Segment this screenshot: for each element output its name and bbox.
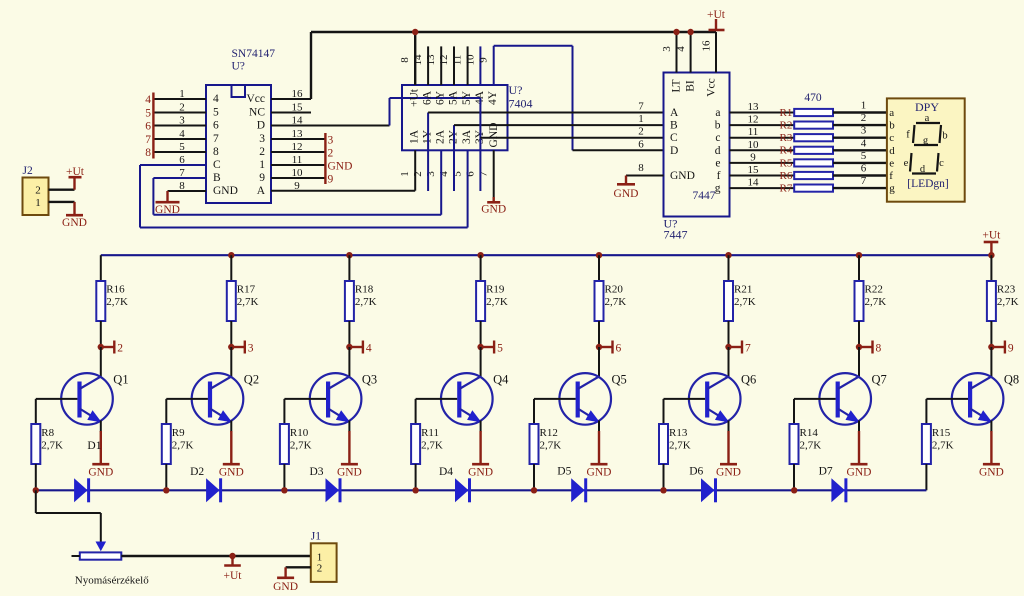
wire potentiometer to J1 pin 1 [121,555,310,557]
svg-text:6: 6 [861,163,867,175]
svg-text:3: 3 [425,171,437,177]
svg-text:2: 2 [412,171,424,177]
node stub 6 [596,344,602,350]
svg-text:7: 7 [145,134,151,146]
svg-text:3: 3 [259,133,265,145]
svg-text:R23: R23 [997,284,1016,296]
resistor R16 2,7K [96,281,105,321]
svg-text:GND: GND [670,170,695,182]
emitter wire to ground Q8 [990,421,992,433]
svg-text:D5: D5 [557,466,571,478]
svg-text:GND: GND [219,467,244,479]
svg-text:3A: 3A [461,129,473,144]
resistor R20 2,7K [595,281,604,321]
stage 1 collector wire [100,255,102,281]
svg-text:3: 3 [861,125,867,137]
stage 5 collector wire [598,255,600,281]
svg-text:a: a [715,107,720,119]
svg-text:g: g [715,183,721,195]
svg-text:+Ut: +Ut [66,166,85,178]
svg-text:6: 6 [145,121,151,133]
svg-text:Q2: Q2 [244,373,259,387]
svg-text:Q8: Q8 [1004,373,1019,387]
svg-text:7: 7 [745,343,751,355]
resistor R9 2,7K [165,399,167,424]
wire 7447 pin to resistor R7 [730,187,795,189]
svg-text:7: 7 [861,175,867,187]
svg-text:R20: R20 [605,284,624,296]
power +Ut above 7447 [715,19,717,30]
svg-text:2,7K: 2,7K [355,296,377,308]
stage 8 collector wire [990,255,992,281]
svg-text:GND: GND [614,188,639,200]
svg-text:GND: GND [979,467,1004,479]
svg-text:8: 8 [876,343,882,355]
power +Ut below wire [229,553,235,559]
diode D6 [701,478,715,502]
wire 7447 pin to resistor R1 [730,112,795,114]
wire R4 to display pin 4 [833,149,887,151]
resistor R17 2,7K [227,281,236,321]
resistor R7 470 [794,185,833,192]
svg-text:5: 5 [497,343,503,355]
red net bus left of SN74147 [152,93,154,159]
svg-text:1: 1 [861,100,867,112]
svg-text:Q7: Q7 [872,373,887,387]
svg-text:2,7K: 2,7K [932,440,954,452]
IC U? 7404 body [402,85,508,150]
svg-text:D: D [257,120,265,132]
transistor Q7 [858,347,860,377]
svg-text:2A: 2A [435,129,447,144]
7447 top pins LT BI Vcc [676,32,678,73]
diode D2 [206,478,220,502]
svg-text:Vcc: Vcc [706,78,718,97]
base wire Q4 [416,398,458,400]
svg-text:R9: R9 [172,427,185,439]
svg-text:7: 7 [638,101,644,113]
svg-text:GND: GND [273,581,298,593]
svg-text:R17: R17 [237,284,256,296]
base wire Q3 [284,398,326,400]
potentiometer Nyomásérzékelő body [80,552,122,559]
svg-text:D: D [670,145,678,157]
ground Q1 [92,463,109,466]
ground SN74147 [156,201,180,204]
diode D3 [326,478,340,502]
resistor R19 2,7K [476,281,485,321]
7404 pin7 GND [493,150,495,197]
svg-text:470: 470 [804,92,822,104]
svg-text:D3: D3 [310,466,324,478]
svg-text:C: C [670,132,678,144]
svg-text:R15: R15 [932,427,951,439]
svg-text:8: 8 [145,147,151,159]
svg-text:GND: GND [488,123,500,148]
transistor Q2 [230,347,232,377]
SN74147 GND pin 8 wire [168,190,207,192]
SN74147 pin 15 NC stub [271,112,311,114]
svg-text:14: 14 [412,54,424,66]
svg-text:11: 11 [748,126,759,138]
resistor R14 2,7K [793,399,795,424]
wire 7447 pin to resistor R4 [730,149,795,151]
red net stub right of SN74147 [324,133,326,184]
svg-text:12: 12 [748,114,759,126]
svg-text:e: e [889,157,894,169]
svg-text:2: 2 [861,112,867,124]
svg-text:7: 7 [213,133,219,145]
svg-text:R8: R8 [41,427,54,439]
svg-text:4: 4 [861,137,867,149]
svg-text:Nyomásérzékelő: Nyomásérzékelő [75,575,149,587]
svg-text:GND: GND [587,467,612,479]
svg-text:2,7K: 2,7K [486,296,508,308]
ground Q2 [223,463,240,466]
emitter wire to ground Q7 [858,421,860,433]
base wire Q5 [534,398,576,400]
svg-text:Vcc: Vcc [246,93,265,105]
resistor R8 2,7K [35,399,37,424]
base wire Q1 [36,398,78,400]
svg-text:Q3: Q3 [362,373,377,387]
7404 output wires through body to 7447 [427,113,429,192]
svg-text:g: g [889,183,895,195]
node stub 3 [228,344,234,350]
svg-text:1: 1 [259,159,265,171]
svg-text:2,7K: 2,7K [172,440,194,452]
resistor R13 2,7K [663,399,665,424]
svg-text:R21: R21 [734,284,752,296]
svg-text:13: 13 [748,101,760,113]
svg-text:9: 9 [478,57,490,63]
svg-text:7447: 7447 [693,190,716,202]
svg-text:1: 1 [35,197,41,209]
7404 pin1 wire down-left [414,150,416,190]
stage 3 collector wire [348,255,350,281]
ground Q8 [983,463,1000,466]
potentiometer wiper arrow [96,542,107,552]
svg-text:GND: GND [481,204,506,216]
SN74147 wire B to 7404 pin3 [153,177,206,179]
svg-text:D2: D2 [190,466,204,478]
svg-text:3: 3 [179,115,185,127]
svg-text:BI: BI [685,80,697,92]
svg-text:2: 2 [317,563,323,575]
svg-text:d: d [889,145,895,157]
svg-text:4: 4 [145,94,151,106]
svg-text:a: a [889,107,894,119]
emitter wire to ground Q4 [480,421,482,433]
resistor R10 2,7K [283,399,285,424]
svg-text:6A: 6A [422,90,434,105]
IC U? 7447 body [664,73,730,217]
svg-text:2,7K: 2,7K [237,296,259,308]
resistor R12 2,7K [533,399,535,424]
svg-text:A: A [257,185,266,197]
resistor R22 2,7K [855,281,864,321]
stage 4 collector wire [480,255,482,281]
IC U? SN74147 body [206,85,271,203]
wire R7 to display pin 7 [833,187,887,189]
seven segment digit [916,122,940,124]
svg-text:R2: R2 [780,120,793,132]
diode D4 [455,478,469,502]
svg-text:5: 5 [861,150,867,162]
node stub 2 [98,344,104,350]
svg-text:6Y: 6Y [435,90,447,105]
svg-text:GND: GND [88,467,113,479]
svg-text:2,7K: 2,7K [106,296,128,308]
svg-text:J2: J2 [23,165,33,177]
svg-text:R18: R18 [355,284,374,296]
svg-text:D1: D1 [87,440,101,452]
stage 6 collector wire [728,255,730,281]
diode D1 [74,478,88,502]
wire J1 pin2 to ground [286,566,311,568]
svg-text:DPY: DPY [915,100,939,114]
svg-text:9: 9 [328,174,334,186]
transistor Q5 [598,347,600,377]
svg-text:R3: R3 [780,132,793,144]
svg-text:7404: 7404 [509,97,533,111]
ground 7404 [487,201,500,204]
svg-text:3: 3 [328,135,334,147]
svg-text:6: 6 [638,138,644,150]
svg-text:c: c [939,158,944,169]
svg-text:[LEDgn]: [LEDgn] [907,178,949,190]
svg-text:R12: R12 [540,427,558,439]
svg-text:14: 14 [748,177,760,189]
svg-text:11: 11 [452,55,464,66]
svg-text:GND: GND [468,467,493,479]
svg-text:f: f [906,130,910,141]
svg-text:4Y: 4Y [487,90,499,105]
svg-text:5: 5 [145,108,151,120]
svg-text:SN74147: SN74147 [232,48,276,60]
svg-text:2,7K: 2,7K [669,440,691,452]
7447 GND wire [626,175,664,177]
resistor R11 2,7K [415,399,417,424]
emitter wire to ground Q2 [230,421,232,433]
svg-text:5A: 5A [448,90,460,105]
svg-text:1: 1 [638,113,644,125]
base wire Q7 [794,398,836,400]
svg-text:d: d [715,145,721,157]
wire R1 to display pin 1 [833,111,887,113]
svg-text:GND: GND [155,204,180,216]
emitter wire to ground Q3 [348,421,350,433]
svg-text:e: e [904,158,909,169]
svg-text:6: 6 [464,171,476,177]
node stub 9 [988,344,994,350]
svg-text:Q5: Q5 [612,373,627,387]
svg-text:2: 2 [638,126,644,138]
svg-text:R13: R13 [669,427,688,439]
svg-text:5: 5 [179,141,185,153]
wire R2 to display pin 2 [833,124,887,126]
svg-text:R10: R10 [290,427,309,439]
base wire Q6 [664,398,706,400]
svg-text:+Ut: +Ut [707,9,726,21]
transistor Q4 [480,347,482,377]
svg-text:2,7K: 2,7K [865,296,887,308]
resistor R21 2,7K [724,281,733,321]
svg-text:GND: GND [337,467,362,479]
svg-text:2,7K: 2,7K [734,296,756,308]
svg-text:Q4: Q4 [493,373,509,387]
+Ut supply rail bottom section [101,254,992,256]
svg-text:GND: GND [847,467,872,479]
svg-text:3: 3 [248,343,254,355]
svg-text:4: 4 [366,343,372,355]
svg-text:8: 8 [399,57,411,63]
7404 top pin stubs [427,46,429,85]
node stub 8 [856,344,862,350]
svg-text:R14: R14 [800,427,819,439]
svg-text:2,7K: 2,7K [421,440,443,452]
svg-text:B: B [213,172,221,184]
ground Q7 [851,463,868,466]
svg-text:U?: U? [232,61,245,73]
svg-text:d: d [920,164,926,175]
svg-text:b: b [715,120,721,132]
svg-text:2: 2 [117,343,123,355]
svg-text:D4: D4 [439,466,453,478]
svg-text:5: 5 [213,107,219,119]
ground Q5 [591,463,608,466]
svg-text:NC: NC [249,107,265,119]
svg-text:2,7K: 2,7K [605,296,627,308]
base wire Q2 [166,398,208,400]
diode D5 [571,478,585,502]
svg-text:2,7K: 2,7K [800,440,822,452]
svg-text:6: 6 [213,120,219,132]
resistor R3 470 [794,134,833,141]
svg-text:A: A [670,107,679,119]
svg-text:R1: R1 [780,107,793,119]
svg-text:2,7K: 2,7K [290,440,312,452]
svg-text:1: 1 [179,88,185,100]
transistor Q8 [990,347,992,377]
svg-text:g: g [923,136,929,147]
node stub 7 [725,344,731,350]
node stub 4 [346,344,352,350]
stage 7 collector wire [858,255,860,281]
diode D7 [831,478,845,502]
emitter wire to ground Q5 [598,421,600,433]
svg-text:c: c [889,132,894,144]
svg-text:R6: R6 [780,170,793,182]
svg-text:5Y: 5Y [461,90,473,105]
svg-text:+Ut: +Ut [982,230,1001,242]
7404 pin9 wire to 7447 D [493,46,495,85]
SN74147 wire C to 7404 pin5 [140,164,206,166]
svg-text:e: e [715,157,720,169]
svg-text:+Ut: +Ut [224,570,243,582]
svg-text:4: 4 [438,171,450,177]
wire 7447 pin to resistor R3 [730,137,795,139]
svg-text:10: 10 [748,139,760,151]
emitter wire to ground Q1 [100,421,102,433]
svg-text:15: 15 [748,164,760,176]
svg-text:C: C [213,159,221,171]
svg-text:R4: R4 [780,145,793,157]
svg-text:a: a [925,113,930,124]
wire R6 to display pin 6 [833,174,887,176]
svg-text:9: 9 [1008,343,1014,355]
base wire Q8 [926,398,968,400]
svg-text:GND: GND [716,467,741,479]
ground at J2 [73,202,75,215]
svg-text:6: 6 [616,343,622,355]
resistor R2 470 [794,122,833,129]
svg-text:D6: D6 [689,466,703,478]
svg-text:GND: GND [62,217,87,229]
svg-text:2,7K: 2,7K [997,296,1019,308]
svg-text:4: 4 [675,46,687,52]
svg-text:f: f [717,170,721,182]
svg-text:2,7K: 2,7K [540,440,562,452]
emitter wire to ground Q6 [728,421,730,433]
svg-text:LT: LT [671,80,683,93]
svg-text:f: f [889,170,893,182]
wire R3 to display pin 3 [833,136,887,138]
resistor R1 470 [794,109,833,116]
svg-text:Q6: Q6 [741,373,756,387]
svg-text:2,7K: 2,7K [41,440,63,452]
svg-text:D7: D7 [819,466,833,478]
transistor Q6 [728,347,730,377]
SN74147 pin 16 Vcc wire to +Ut rail [271,98,311,100]
svg-text:7447: 7447 [664,228,688,242]
svg-text:U?: U? [509,83,523,97]
ground Q6 [720,463,737,466]
J2 pin2 wire to +Ut [49,188,75,190]
svg-text:GND: GND [213,185,238,197]
ground 7447 [617,183,635,186]
resistor R6 470 [794,172,833,179]
ground Q3 [341,463,358,466]
svg-text:1A: 1A [409,129,421,144]
resistor R23 2,7K [987,281,996,321]
stage 2 collector wire [230,255,232,281]
svg-text:4: 4 [213,93,219,105]
svg-text:2: 2 [259,146,265,158]
svg-text:R19: R19 [486,284,505,296]
SN74147 left pins rows 1-5 [153,98,206,100]
svg-text:9: 9 [259,172,265,184]
svg-text:b: b [942,131,947,142]
svg-text:13: 13 [425,54,437,66]
svg-text:GND: GND [328,161,353,173]
SN74147 pin 14 D wire [271,125,390,127]
7404 pin5 wire [467,150,469,227]
svg-text:R5: R5 [780,157,793,169]
wire 7447 pin to resistor R2 [730,124,795,126]
7404 pin3 wire [440,150,442,214]
transistor Q3 [348,347,350,377]
transistor Q1 [100,347,102,377]
svg-text:3: 3 [661,46,673,52]
svg-text:12: 12 [438,55,450,66]
power +Ut at J2 [73,178,75,190]
7404 pin8 +Ut wire from rail [414,32,416,85]
diode bus [36,489,927,491]
svg-text:4: 4 [179,128,185,140]
svg-text:+Ut: +Ut [409,88,421,107]
SN74147 pin 9 A wire to 7404 pin 1 [271,190,415,192]
